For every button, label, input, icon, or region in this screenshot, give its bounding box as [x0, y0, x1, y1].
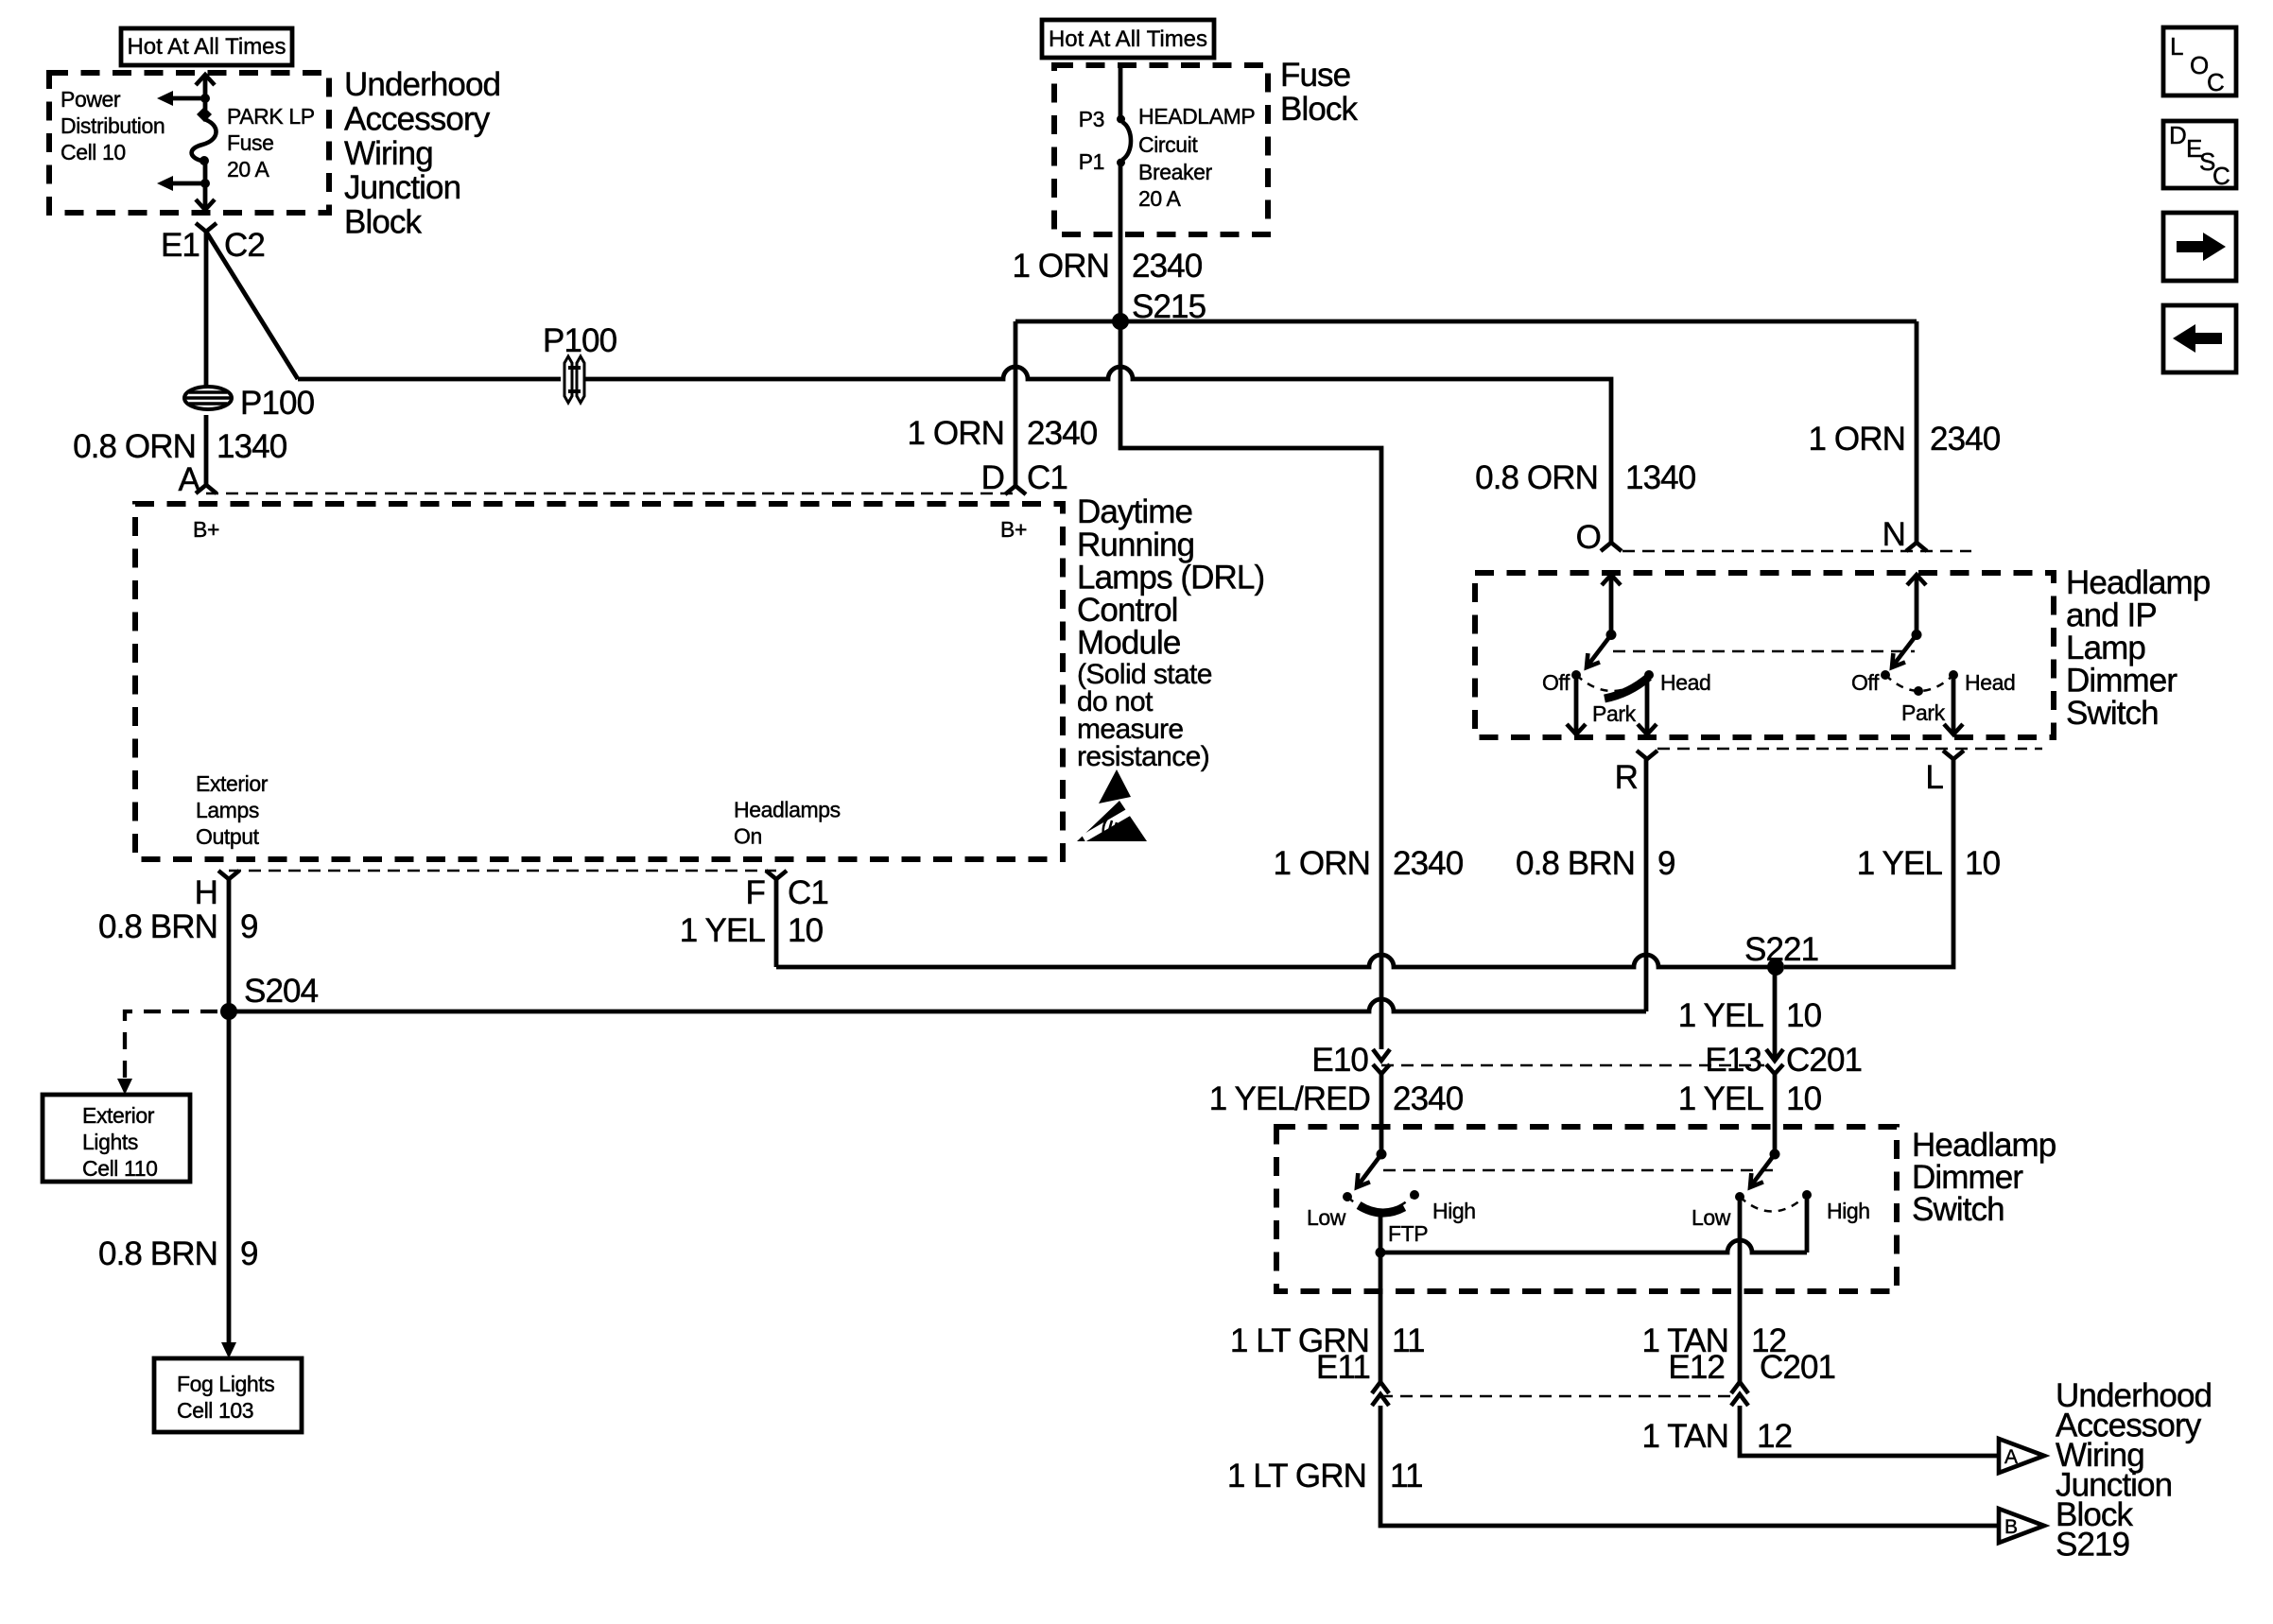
- svg-text:Low: Low: [1692, 1205, 1731, 1230]
- splice S204: [220, 973, 319, 1020]
- svg-text:P100: P100: [240, 385, 315, 422]
- svg-text:2340: 2340: [1132, 248, 1203, 285]
- svg-text:C: C: [2207, 68, 2225, 96]
- label: 1 LT GRN 11 (above E11): [1230, 1322, 1425, 1359]
- label: 0.8 BRN 9 (lower): [98, 1235, 258, 1272]
- svg-text:Control: Control: [1077, 592, 1178, 629]
- svg-text:1 YEL: 1 YEL: [1678, 1080, 1764, 1117]
- svg-text:E13: E13: [1705, 1042, 1761, 1079]
- splice S221: [1744, 931, 1818, 976]
- nav box: forward arrow: [2163, 213, 2236, 281]
- wire: 0.8 BRN 9 from pin H to fog lights: [221, 879, 236, 1358]
- terminal B (to Underhood Accessory Wiring Junction Block): [1999, 1509, 2044, 1543]
- svg-text:2340: 2340: [1027, 415, 1098, 452]
- pin R of headlamp switch: [1615, 751, 1657, 796]
- wire: 1 YEL 10 from pin F to S221: [774, 879, 779, 967]
- contact High (pole 1): [1410, 1190, 1476, 1223]
- pin F of DRL connector C1 (Headlamps On): [746, 871, 828, 911]
- contact Low (pole 1): [1307, 1192, 1352, 1230]
- svg-text:O: O: [1576, 519, 1601, 556]
- svg-text:0.8 ORN: 0.8 ORN: [73, 428, 196, 465]
- wire: 1 LT GRN 11 from E11 to terminal B: [1380, 1406, 1997, 1526]
- svg-text:resistance): resistance): [1077, 741, 1209, 772]
- contact FTP tap: [1380, 1217, 1428, 1253]
- svg-text:E12: E12: [1668, 1349, 1725, 1386]
- label box "Hot At All Times" (left): [121, 28, 292, 65]
- svg-text:High: High: [1432, 1199, 1476, 1223]
- svg-text:0.8 BRN: 0.8 BRN: [98, 1235, 217, 1272]
- svg-text:Circuit: Circuit: [1138, 132, 1198, 157]
- svg-text:1 YEL: 1 YEL: [1857, 845, 1943, 882]
- wire: diagonal from E1/C2 to P100 horizontal run: [206, 232, 298, 379]
- label: 1 TAN 12 (above E12): [1642, 1322, 1787, 1359]
- label: P100 (inline connector): [543, 322, 617, 359]
- svg-text:F: F: [746, 874, 765, 911]
- svg-text:C201: C201: [1760, 1349, 1835, 1386]
- wire: Head contact (pole 1) down to R: [1638, 679, 1657, 734]
- svg-text:0.8 BRN: 0.8 BRN: [98, 908, 217, 945]
- label: 1 ORN 2340 (DRL feed): [908, 415, 1098, 452]
- svg-text:E11: E11: [1316, 1349, 1370, 1386]
- label: 1 ORN 2340 (switch N feed): [1809, 421, 2001, 458]
- svg-text:10: 10: [788, 912, 824, 949]
- svg-text:2340: 2340: [1393, 1080, 1464, 1117]
- svg-text:Fog Lights: Fog Lights: [177, 1372, 274, 1396]
- label: Headlamps On: [734, 798, 841, 849]
- wire: Low contact (pole 2) down to E12: [1738, 1201, 1743, 1382]
- svg-text:High: High: [1827, 1199, 1870, 1223]
- svg-text:Headlamp: Headlamp: [2066, 564, 2210, 601]
- wire: 0.8 BRN 9 bus from S204 to dimmer switch R wire: [229, 759, 1646, 1011]
- symbol: ESD sensitive device icon: [1077, 769, 1147, 841]
- dimmer pole 2: common arm: [1750, 1149, 1780, 1188]
- svg-text:Park: Park: [1901, 700, 1946, 725]
- label: 1 YEL 10 (pin F): [680, 912, 824, 949]
- wiper position (thick arc, dimmer pole 1): [1359, 1205, 1404, 1213]
- svg-text:Park: Park: [1592, 701, 1637, 726]
- label: 1 LT GRN 11 (below E11): [1227, 1458, 1423, 1494]
- svg-text:20 A: 20 A: [227, 157, 270, 181]
- svg-text:Head: Head: [1660, 670, 1710, 695]
- pin H of DRL connector (Exterior Lamps Output): [195, 871, 239, 911]
- svg-text:Head: Head: [1965, 670, 2015, 695]
- svg-text:Cell 103: Cell 103: [177, 1398, 253, 1423]
- label: 0.8 ORN 1340 (switch O feed): [1475, 459, 1696, 496]
- label: P100 (left connector): [240, 385, 315, 422]
- svg-text:L: L: [1925, 759, 1943, 796]
- thin dashed connector line C1 (H to F): [229, 870, 776, 872]
- svg-text:10: 10: [1786, 1080, 1822, 1117]
- svg-text:On: On: [734, 824, 762, 849]
- in-line connector E12 of C201: [1668, 1349, 1835, 1406]
- label: 1 YEL 10 (E13): [1678, 1080, 1822, 1117]
- label: 1 YEL 10 (below S221): [1678, 997, 1822, 1034]
- thin dashed connector line C1 (A to D): [206, 492, 1015, 495]
- pin P1: [1079, 149, 1104, 174]
- svg-text:Dimmer: Dimmer: [2066, 663, 2178, 700]
- svg-text:Block: Block: [1280, 91, 1358, 128]
- svg-text:E10: E10: [1311, 1042, 1368, 1079]
- svg-text:HEADLAMP: HEADLAMP: [1138, 104, 1255, 129]
- contact Park (pole 2): [1901, 686, 1946, 725]
- wire: E10 into dimmer switch pole 1: [1379, 1074, 1384, 1154]
- svg-text:9: 9: [240, 908, 258, 945]
- svg-text:Distribution: Distribution: [61, 113, 165, 138]
- nav box: LOC: [2163, 27, 2236, 96]
- circuit breaker: HEADLAMP 20 A with pins P3 and P1: [1117, 65, 1131, 321]
- pin N of headlamp switch: [1883, 516, 1927, 553]
- svg-text:9: 9: [240, 1235, 258, 1272]
- pin L of headlamp switch: [1925, 751, 1964, 796]
- wire: FTP bus to High contact of pole 2: [1380, 1199, 1807, 1253]
- wire: 1 ORN 2340 from S215 to headlamp switch pin N: [1915, 321, 1919, 543]
- svg-text:1 ORN: 1 ORN: [908, 415, 1004, 452]
- svg-text:1 TAN: 1 TAN: [1642, 1418, 1728, 1455]
- svg-text:1 YEL: 1 YEL: [680, 912, 766, 949]
- svg-text:1 ORN: 1 ORN: [1013, 248, 1109, 285]
- wire: 1 YEL bus into S221 (from F): [776, 955, 1776, 967]
- label: HEADLAMP Circuit Breaker 20 A: [1138, 104, 1255, 211]
- label: 0.8 BRN 9 (R wire): [1516, 845, 1675, 882]
- svg-text:20 A: 20 A: [1138, 186, 1182, 211]
- svg-text:1 ORN: 1 ORN: [1809, 421, 1905, 458]
- svg-text:C1: C1: [1027, 459, 1067, 496]
- travel path (dashed arc, dimmer pole 1): [1347, 1195, 1414, 1212]
- svg-text:D: D: [981, 459, 1004, 496]
- svg-text:Off: Off: [1851, 670, 1880, 695]
- svg-text:C2: C2: [224, 227, 265, 264]
- svg-text:Underhood: Underhood: [344, 66, 500, 103]
- svg-text:9: 9: [1657, 845, 1675, 882]
- thin dashed connector line (R to L): [1657, 748, 2042, 751]
- svg-text:S221: S221: [1744, 931, 1818, 968]
- contact Off (pole 1): [1542, 670, 1581, 695]
- svg-text:Wiring: Wiring: [344, 135, 433, 172]
- switch pole 1 (from O): common arm: [1587, 575, 1621, 667]
- svg-text:Lights: Lights: [82, 1130, 138, 1154]
- svg-text:Low: Low: [1307, 1205, 1346, 1230]
- svg-text:Cell 110: Cell 110: [82, 1156, 157, 1181]
- thin dashed connector line C201 (E10 to E13): [1381, 1064, 1764, 1067]
- junction block: Underhood Accessory Wiring Junction Block (dashed box): [49, 73, 329, 213]
- wire: 1 YEL 10 from L down to S221: [1784, 759, 1953, 967]
- fuse block (dashed box): [1054, 65, 1268, 234]
- inline connector P100 (on vertical wire): [184, 387, 232, 409]
- wire: 0.8 ORN 1340 from E1 to DRL module pin A: [204, 232, 209, 485]
- svg-text:0.8 BRN: 0.8 BRN: [1516, 845, 1635, 882]
- thin dashed connector line (O to N): [1622, 550, 1971, 553]
- svg-text:1 LT GRN: 1 LT GRN: [1227, 1458, 1366, 1494]
- travel path (dashed arc, pole 2): [1885, 675, 1953, 691]
- svg-text:C201: C201: [1786, 1042, 1862, 1079]
- label: Underhood Accessory Wiring Junction Block S219: [2056, 1377, 2212, 1564]
- terminal A (to Underhood Accessory Wiring Junction Block): [1999, 1439, 2044, 1473]
- label: Headlamp and IP Lamp Dimmer Switch: [2066, 564, 2210, 732]
- label: Exterior Lamps Output: [196, 771, 269, 849]
- wire: 1 YEL 10 from S221 to E13: [1773, 967, 1778, 1061]
- wire: Head contact (pole 2) down to L: [1944, 679, 1963, 734]
- wiper position (thick arc, pole 1): [1605, 677, 1649, 699]
- pin P3: [1079, 107, 1104, 131]
- svg-text:Exterior: Exterior: [196, 771, 269, 796]
- splice S215: [1112, 288, 1206, 330]
- svg-text:Daytime: Daytime: [1077, 493, 1192, 530]
- svg-text:Running: Running: [1077, 527, 1194, 563]
- in-line connector E11 of C201: [1316, 1349, 1389, 1406]
- mechanical link (dashed) between switch poles: [1613, 650, 1915, 653]
- pin D of DRL connector C1: [981, 459, 1067, 496]
- svg-text:Module: Module: [1077, 625, 1180, 662]
- svg-text:FTP: FTP: [1388, 1221, 1428, 1246]
- label: Underhood Accessory Wiring Junction Block: [344, 66, 500, 241]
- svg-text:P3: P3: [1079, 107, 1104, 131]
- svg-text:Lamps (DRL): Lamps (DRL): [1077, 560, 1264, 596]
- label box "Hot At All Times" (center): [1042, 20, 1214, 58]
- svg-text:10: 10: [1786, 997, 1822, 1034]
- thin dashed connector line C201 (E11 to E12): [1380, 1395, 1740, 1398]
- wire: E13 into dimmer switch pole 2: [1773, 1074, 1778, 1154]
- svg-text:P1: P1: [1079, 149, 1104, 174]
- pin O of headlamp switch: [1576, 519, 1622, 556]
- switch pole 2 (from N): common arm: [1892, 575, 1926, 667]
- svg-text:Fuse: Fuse: [1280, 57, 1350, 94]
- label: PARK LP Fuse 20 A: [227, 104, 315, 181]
- reference box: Exterior Lights Cell 110: [43, 1095, 190, 1182]
- label: Headlamp Dimmer Switch: [1912, 1127, 2056, 1228]
- svg-text:N: N: [1883, 516, 1905, 553]
- svg-text:11: 11: [1392, 1322, 1425, 1359]
- wire: dimmer pole 1 output down to E11: [1379, 1253, 1383, 1382]
- svg-text:Exterior: Exterior: [82, 1103, 155, 1128]
- headlamp dimmer switch (dashed box): [1276, 1127, 1897, 1291]
- dashed wire branch from S204 to Exterior Lights: [117, 1011, 217, 1095]
- svg-text:Hot At All Times: Hot At All Times: [1049, 26, 1207, 52]
- wire: 1 TAN 12 from E12 to terminal A: [1740, 1406, 1997, 1456]
- label: 1 YEL 10 (L wire): [1857, 845, 2001, 882]
- contact Head (pole 2): [1949, 670, 2015, 695]
- svg-text:Headlamps: Headlamps: [734, 798, 841, 822]
- svg-text:C1: C1: [788, 874, 828, 911]
- svg-text:S219: S219: [2056, 1527, 2129, 1564]
- svg-text:1 YEL/RED: 1 YEL/RED: [1209, 1080, 1370, 1117]
- svg-text:Fuse: Fuse: [227, 130, 274, 155]
- in-line connector E13 of C201: [1705, 1042, 1862, 1079]
- label: 1 ORN 2340 (breaker output): [1013, 248, 1203, 285]
- label: Park (pole 1): [1592, 701, 1637, 726]
- svg-text:11: 11: [1390, 1458, 1423, 1494]
- pin A of DRL module connector: [179, 461, 217, 498]
- svg-text:1340: 1340: [217, 428, 287, 465]
- wire: 1 ORN 2340 from S215 to DRL pin D: [1014, 321, 1018, 486]
- wire: horizontal run to P100 and headlamp switch (hops over verticals): [298, 367, 1611, 543]
- reference box: Fog Lights Cell 103: [154, 1358, 302, 1432]
- svg-text:Block: Block: [344, 204, 422, 241]
- svg-text:E1: E1: [161, 227, 200, 264]
- DRL module: Daytime Running Lamps Control Module (dashed box): [135, 504, 1063, 859]
- inline connector P100 (on horizontal wire): [564, 356, 584, 403]
- svg-text:Lamp: Lamp: [2066, 630, 2145, 666]
- svg-text:0.8 ORN: 0.8 ORN: [1475, 459, 1598, 496]
- nav box: back arrow: [2163, 305, 2236, 372]
- svg-text:L: L: [2170, 32, 2183, 60]
- label: 1 ORN 2340 (E10 feed): [1274, 845, 1464, 882]
- svg-text:2340: 2340: [1393, 845, 1464, 882]
- nav box: DESC: [2163, 121, 2236, 190]
- svg-text:PARK LP: PARK LP: [227, 104, 315, 129]
- in-line connector E10 of C201: [1311, 1042, 1390, 1079]
- contact Low (pole 2): [1692, 1192, 1744, 1230]
- wire: 1 ORN 2340 from S215 down to E10: [1120, 321, 1381, 1049]
- connector C2 terminal E1: [161, 223, 265, 264]
- svg-text:10: 10: [1965, 845, 2001, 882]
- svg-text:Switch: Switch: [2066, 695, 2159, 732]
- pin label B+ (left): [193, 517, 219, 542]
- svg-text:P100: P100: [543, 322, 617, 359]
- svg-text:Output: Output: [196, 824, 260, 849]
- svg-text:C: C: [2212, 162, 2230, 190]
- svg-text:R: R: [1615, 759, 1638, 796]
- svg-text:12: 12: [1757, 1418, 1792, 1455]
- svg-text:Accessory: Accessory: [344, 100, 491, 137]
- contact Off (pole 2): [1851, 670, 1890, 695]
- fuse: PARK LP Fuse 20 A: [192, 107, 217, 165]
- travel path (dashed arc, dimmer pole 2): [1740, 1195, 1807, 1212]
- contact Head (pole 1): [1644, 670, 1710, 695]
- label: 1 YEL/RED 2340: [1209, 1080, 1464, 1117]
- headlamp and IP lamp dimmer switch (dashed box): [1475, 573, 2054, 737]
- travel path (dashed arc, pole 1): [1576, 675, 1649, 691]
- label: (Solid state do not measure resistance): [1077, 659, 1212, 772]
- node: feed junction (top) with branch arrow to Power Distribution: [157, 91, 210, 106]
- svg-text:B+: B+: [193, 517, 219, 542]
- svg-text:B: B: [2004, 1516, 2018, 1538]
- node: FTP junction: [1376, 1248, 1386, 1258]
- svg-text:1 YEL: 1 YEL: [1678, 997, 1764, 1034]
- wire: battery feed inside junction block: [196, 75, 215, 210]
- svg-text:Breaker: Breaker: [1138, 160, 1212, 184]
- svg-text:H: H: [195, 874, 217, 911]
- mechanical link (dashed) between dimmer poles: [1383, 1169, 1773, 1172]
- svg-text:and IP: and IP: [2066, 597, 2157, 634]
- svg-text:Cell 10: Cell 10: [61, 140, 126, 164]
- svg-text:Off: Off: [1542, 670, 1570, 695]
- svg-text:Power: Power: [61, 87, 121, 112]
- wire: Off contact to box edge (pole 1): [1567, 679, 1586, 734]
- svg-text:2340: 2340: [1930, 421, 2001, 458]
- dimmer pole 1: common arm: [1357, 1149, 1387, 1188]
- svg-text:1340: 1340: [1625, 459, 1696, 496]
- svg-text:Switch: Switch: [1912, 1191, 2004, 1228]
- contact High (pole 2): [1802, 1190, 1870, 1223]
- pin label B+ (right): [1000, 517, 1027, 542]
- label: 0.8 ORN 1340: [73, 428, 287, 465]
- label: Fuse Block: [1280, 57, 1358, 128]
- svg-text:Junction: Junction: [344, 169, 460, 206]
- wire: S215 distribution bus: [1015, 320, 1917, 324]
- label: Power Distribution Cell 10: [61, 87, 165, 164]
- label: Daytime Running Lamps (DRL) Control Module: [1077, 493, 1264, 662]
- svg-text:1 ORN: 1 ORN: [1274, 845, 1370, 882]
- label: 0.8 BRN 9 (upper): [98, 908, 258, 945]
- svg-text:B+: B+: [1000, 517, 1027, 542]
- node: feed junction (bottom) with branch arrow: [157, 176, 210, 191]
- svg-text:S204: S204: [244, 973, 319, 1010]
- svg-text:Hot At All Times: Hot At All Times: [127, 34, 286, 60]
- svg-text:Lamps: Lamps: [196, 798, 259, 822]
- label: 1 TAN 12 (below E12): [1642, 1418, 1793, 1455]
- svg-text:D: D: [2169, 121, 2187, 149]
- svg-text:A: A: [2004, 1446, 2018, 1468]
